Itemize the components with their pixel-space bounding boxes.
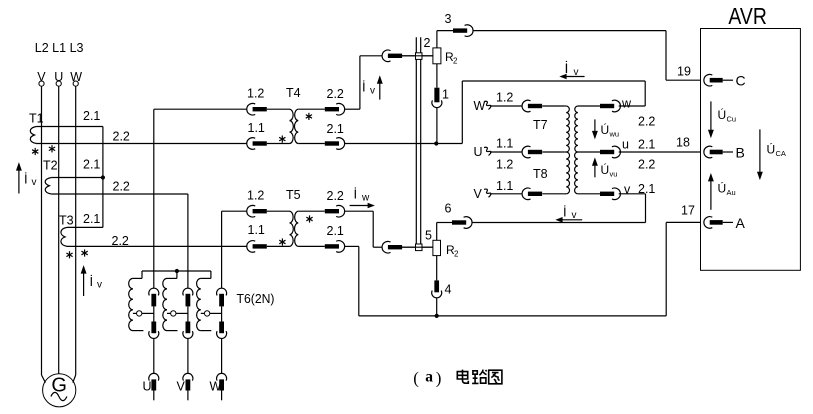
svg-text:İ: İ: [563, 205, 567, 220]
svg-text:5: 5: [425, 229, 432, 243]
svg-text:T3: T3: [59, 214, 74, 228]
svg-text:Ú: Ú: [767, 142, 776, 157]
svg-text:19: 19: [677, 65, 691, 79]
svg-text:): ): [436, 369, 442, 388]
svg-text:v: v: [97, 280, 102, 291]
svg-text:Au: Au: [727, 188, 736, 197]
svg-text:vu: vu: [610, 170, 618, 179]
svg-text:T8: T8: [533, 167, 548, 181]
svg-text:1.2: 1.2: [496, 158, 513, 172]
svg-text:wu: wu: [609, 130, 620, 139]
svg-text:2.2: 2.2: [638, 158, 655, 172]
svg-text:1.1: 1.1: [248, 223, 265, 237]
svg-text:İ: İ: [565, 59, 569, 76]
svg-text:1.2: 1.2: [247, 189, 264, 203]
svg-text:4: 4: [445, 283, 452, 297]
svg-text:v: v: [370, 86, 375, 97]
svg-text:2.1: 2.1: [327, 122, 344, 136]
svg-text:2.1: 2.1: [327, 224, 344, 238]
svg-text:17: 17: [681, 203, 695, 217]
svg-text:u: u: [622, 138, 629, 152]
svg-text:İ: İ: [24, 172, 28, 187]
svg-text:L2 L1 L3: L2 L1 L3: [35, 41, 84, 55]
svg-text:T4: T4: [286, 86, 301, 100]
svg-text:U: U: [143, 380, 152, 394]
svg-text:AVR: AVR: [728, 3, 767, 29]
svg-text:2.1: 2.1: [83, 158, 100, 172]
svg-text:2.2: 2.2: [327, 87, 344, 101]
svg-text:T6(2N): T6(2N): [237, 291, 275, 306]
svg-text:Ú: Ú: [718, 107, 727, 122]
svg-text:a: a: [425, 369, 433, 386]
svg-text:İ: İ: [90, 274, 94, 289]
svg-text:6: 6: [445, 202, 452, 216]
svg-text:2.2: 2.2: [113, 180, 130, 194]
svg-text:3: 3: [445, 12, 452, 26]
svg-text:1: 1: [442, 88, 449, 102]
svg-text:CA: CA: [776, 149, 786, 158]
svg-text:1.1: 1.1: [496, 179, 513, 193]
svg-text:18: 18: [676, 136, 690, 150]
svg-text:A: A: [736, 215, 746, 231]
svg-text:V: V: [177, 380, 186, 394]
svg-text:1.2: 1.2: [496, 91, 513, 105]
svg-text:2.1: 2.1: [638, 138, 655, 152]
svg-text:T2: T2: [43, 159, 58, 173]
svg-text:2: 2: [454, 250, 459, 259]
svg-text:2.1: 2.1: [83, 212, 100, 226]
svg-text:Ú: Ú: [601, 162, 610, 177]
svg-text:T1: T1: [29, 112, 44, 126]
svg-text:U: U: [474, 145, 483, 159]
svg-text:Ú: Ú: [601, 122, 610, 137]
svg-text:2.2: 2.2: [638, 115, 655, 129]
svg-text:1.2: 1.2: [247, 87, 264, 101]
svg-text:U: U: [54, 70, 63, 84]
svg-text:w: w: [621, 97, 632, 111]
svg-text:w: w: [361, 193, 370, 204]
svg-text:W: W: [474, 99, 486, 113]
svg-text:1.1: 1.1: [248, 121, 265, 135]
svg-text:W: W: [70, 70, 82, 84]
svg-text:2.2: 2.2: [327, 189, 344, 203]
svg-text:2: 2: [424, 36, 431, 50]
svg-text:İ: İ: [362, 80, 366, 95]
svg-text:T7: T7: [533, 118, 548, 132]
svg-text:2: 2: [453, 57, 458, 66]
svg-text:V: V: [37, 70, 46, 84]
svg-text:2.2: 2.2: [113, 130, 130, 144]
svg-text:v: v: [32, 177, 37, 188]
svg-text:İ: İ: [354, 187, 358, 202]
svg-text:Cu: Cu: [727, 115, 737, 124]
svg-text:W: W: [210, 380, 222, 394]
svg-text:(: (: [413, 369, 419, 388]
svg-text:V: V: [474, 187, 483, 201]
svg-text:B: B: [736, 145, 745, 161]
svg-text:T5: T5: [286, 188, 301, 202]
svg-text:C: C: [736, 73, 746, 89]
svg-text:2.1: 2.1: [83, 109, 100, 123]
svg-text:Ú: Ú: [718, 181, 727, 196]
svg-text:2.2: 2.2: [112, 234, 129, 248]
svg-text:1.1: 1.1: [496, 137, 513, 151]
